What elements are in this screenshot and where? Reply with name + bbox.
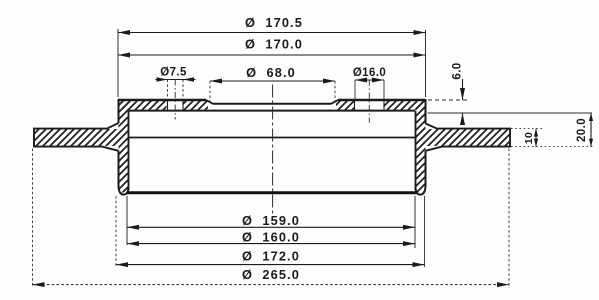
dimension line 170.0 [118,54,426,56]
hat top surface left [118,99,206,102]
dimension line 172.0 [116,264,425,266]
extension line right for 265 [508,149,510,289]
right wing outline [426,124,511,151]
extension line bottom left for 172 [115,196,117,266]
svg-text:Ø 159.0: Ø 159.0 [242,213,300,228]
extension lines 16 [355,80,384,101]
extension of hat top surface to the right [428,99,468,101]
svg-text:Ø16.0: Ø16.0 [353,67,386,79]
dimension line 160.0 [127,243,415,245]
arrow 7.5 left [157,77,168,81]
right wall inner edge [415,111,417,190]
hole 16 centerline [368,80,370,123]
hatch: hat top band left segment [119,101,167,110]
extension line bottom left for 159/160 [126,196,128,245]
recess chamfer left [206,100,213,104]
hat top surface right [338,99,425,102]
svg-text:6.0: 6.0 [452,62,464,79]
bolt hole 7.5 centerline [174,80,176,120]
svg-text:Ø 68.0: Ø 68.0 [246,65,296,80]
hole 16 notch edges [355,101,385,110]
arrow 7.5 right [183,77,194,81]
extension line left for 265 [32,149,34,287]
right wall outer edge lower and round bottom tip [416,151,426,195]
bolt hole 7.5 notch edges [168,101,184,110]
dimension 6.0 upper leg [462,79,464,100]
dimension line 159.0 [127,226,415,228]
dotted extension wing bottom right [511,146,593,148]
dimension 68.0 [210,80,335,82]
hat band bottom line [129,110,416,112]
extension line bottom right for 159/160 [414,196,416,248]
hatch: left wall [119,101,129,193]
dimension 16.0 [355,79,384,81]
extension lines 7.5 [168,80,184,100]
left wall inner edge [128,111,130,190]
extension lines 68 [210,81,335,102]
left wall outer edge lower and round bottom tip [119,151,129,195]
svg-text:Ø 172.0: Ø 172.0 [242,249,300,264]
recess chamfer right [331,100,338,104]
svg-text:10: 10 [523,132,535,144]
extension line right for 170 dims [425,30,427,97]
hatch: right wall [416,101,426,193]
dimension 20.0 [590,113,592,147]
extension line at hat underside level [428,112,593,114]
hatch: hat top band right segment [384,101,426,110]
inner shoulder line [129,137,416,139]
left wing outline [34,123,119,151]
svg-text:Ø 170.0: Ø 170.0 [245,37,303,52]
dimension 7.5: line with outside arrows [156,79,196,81]
svg-text:20.0: 20.0 [576,118,588,142]
dimension line 170.5 [118,32,426,34]
svg-text:Ø 170.5: Ø 170.5 [245,15,303,30]
dimension 6.0 lower leg [462,113,464,124]
extension line bottom right for 172 [424,196,426,267]
recess surface (mounting face) [213,103,331,105]
dimension 10 (wing thickness) [535,129,537,147]
dimension line 265.0 (dashed) [33,284,510,286]
svg-text:Ø7.5: Ø7.5 [160,67,187,79]
hatch: hat top band between bolt hole and recess [183,101,208,110]
left wall outer edge upper [118,99,120,123]
vertical centerline of disc [272,85,274,215]
hatch: right wing flange [426,129,511,146]
dotted extension wing top right [511,128,542,130]
right wall outer edge upper [425,99,427,124]
hatch: hat top band between recess and 16-hole [336,101,355,110]
bottom opening edge [127,191,417,194]
hatch: left wing flange [34,129,119,146]
extension line left for 170 dims [117,29,119,97]
svg-text:Ø 160.0: Ø 160.0 [242,230,300,245]
svg-text:Ø 265.0: Ø 265.0 [242,267,300,282]
